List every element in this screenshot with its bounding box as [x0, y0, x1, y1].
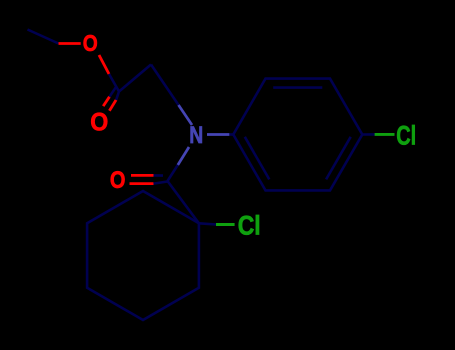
bond N to phenyl C1' (nitrogen half, blue): [207, 133, 229, 136]
double bond C2=O3 line 1 (red half): [131, 174, 154, 177]
svg-text:Cl: Cl: [396, 121, 416, 151]
double bond C1=O2 line 2 (carbon half, dark): [116, 92, 119, 100]
benzene inner double bond lower-left edge: [245, 137, 269, 180]
atom O3 (amide oxygen label): [110, 167, 126, 194]
bond C1 to CH2 (dark): [119, 65, 151, 92]
bond C2 to cyclohexane C1'' (dark): [168, 181, 199, 223]
svg-text:O: O: [110, 167, 126, 194]
bond phenyl C4' to Cl5 (carbon half, dark): [362, 133, 374, 136]
bond phenyl C4' to Cl5 (chlorine half, green): [375, 133, 395, 136]
double bond C1=O2 line 2 (red half): [109, 100, 116, 111]
atom O2 (ester carbonyl oxygen label): [90, 108, 108, 136]
bond N to C2 amide carbonyl (carbon half, dark): [168, 165, 178, 181]
atom Cl4 (chlorine label on cyclohexane): [238, 211, 261, 241]
bond CH3 to O1 (oxygen half, red): [59, 42, 81, 45]
svg-text:Cl: Cl: [238, 211, 261, 241]
bond O1 to C1 (carbon half, dark): [109, 74, 119, 92]
double bond C2=O3 line 1 (carbon half, dark): [154, 174, 164, 177]
atom Cl5 (chlorine label on benzene): [396, 121, 416, 151]
bond O1 to C1 (oxygen half, red): [99, 55, 109, 74]
benzene inner double bond top edge: [273, 86, 322, 89]
bond CH2 to N (nitrogen half, blue): [179, 105, 193, 125]
double bond C2=O3 line 2 (red half): [130, 182, 154, 185]
svg-text:N: N: [189, 123, 203, 149]
benzene inner double bond lower-right edge: [326, 137, 351, 180]
bond C1'' to Cl4 (chlorine half, green): [216, 223, 235, 226]
double bond C1=O2 line 1 (carbon half, dark): [110, 87, 116, 96]
bond CH3 to O1 (carbon half, dark): [28, 30, 59, 44]
double bond C2=O3 line 2 (carbon half, dark): [154, 182, 168, 184]
bond N to C2 amide carbonyl (nitrogen half, blue): [178, 147, 189, 165]
svg-text:O: O: [90, 108, 108, 136]
bond C1'' to Cl4 (carbon half, dark): [199, 223, 216, 224]
double bond C1=O2 line 1 (red half): [103, 97, 109, 106]
atom N (amide nitrogen label): [189, 123, 203, 149]
cyclohexane ring (dark): [87, 191, 199, 320]
benzene ring (4-chlorophenyl, dark): [233, 79, 362, 191]
bond CH2 to N (carbon half, dark): [151, 65, 179, 106]
svg-text:O: O: [83, 30, 98, 56]
atom O1 (ester oxygen label): [83, 30, 98, 56]
bond N to phenyl C1' (carbon half, dark): [229, 133, 233, 136]
